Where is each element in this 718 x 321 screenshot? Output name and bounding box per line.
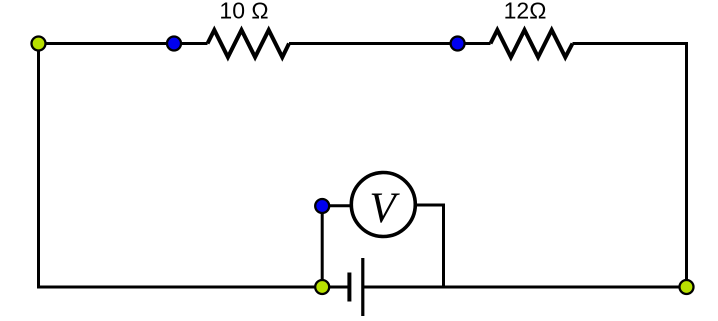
wire: R2 to top-right corner and down right side (573, 44, 687, 288)
resistor R1 zigzag (208, 30, 290, 57)
resistor R2 zigzag (491, 30, 573, 57)
node A (green, top-left) (32, 37, 46, 51)
wire top: node A to resistor R1 (39, 42, 208, 45)
node C (blue, left of R2) (451, 37, 465, 51)
wire left side and bottom left: node A down and right to battery negative plate (39, 44, 349, 288)
svg-text:10 Ω: 10 Ω (219, 0, 268, 24)
svg-text:12Ω: 12Ω (504, 0, 547, 24)
wire bottom right: node D to battery positive plate (363, 286, 687, 289)
node B (blue, left of R1) (167, 37, 181, 51)
voltmeter U1 circle (351, 173, 415, 237)
wire: voltmeter right terminal to bottom wire (415, 205, 444, 287)
battery B1 negative plate (short) (347, 273, 351, 302)
node E (blue, voltmeter branch) (315, 199, 329, 213)
wire top: R1 to resistor R2 (289, 42, 491, 45)
wire: node E down to node F (321, 206, 324, 287)
battery B1 positive plate (long) (361, 258, 364, 316)
node F (green, on bottom wire) (315, 280, 329, 294)
node D (green, bottom-right) (680, 280, 694, 294)
wire: node E to voltmeter left terminal (322, 204, 351, 207)
